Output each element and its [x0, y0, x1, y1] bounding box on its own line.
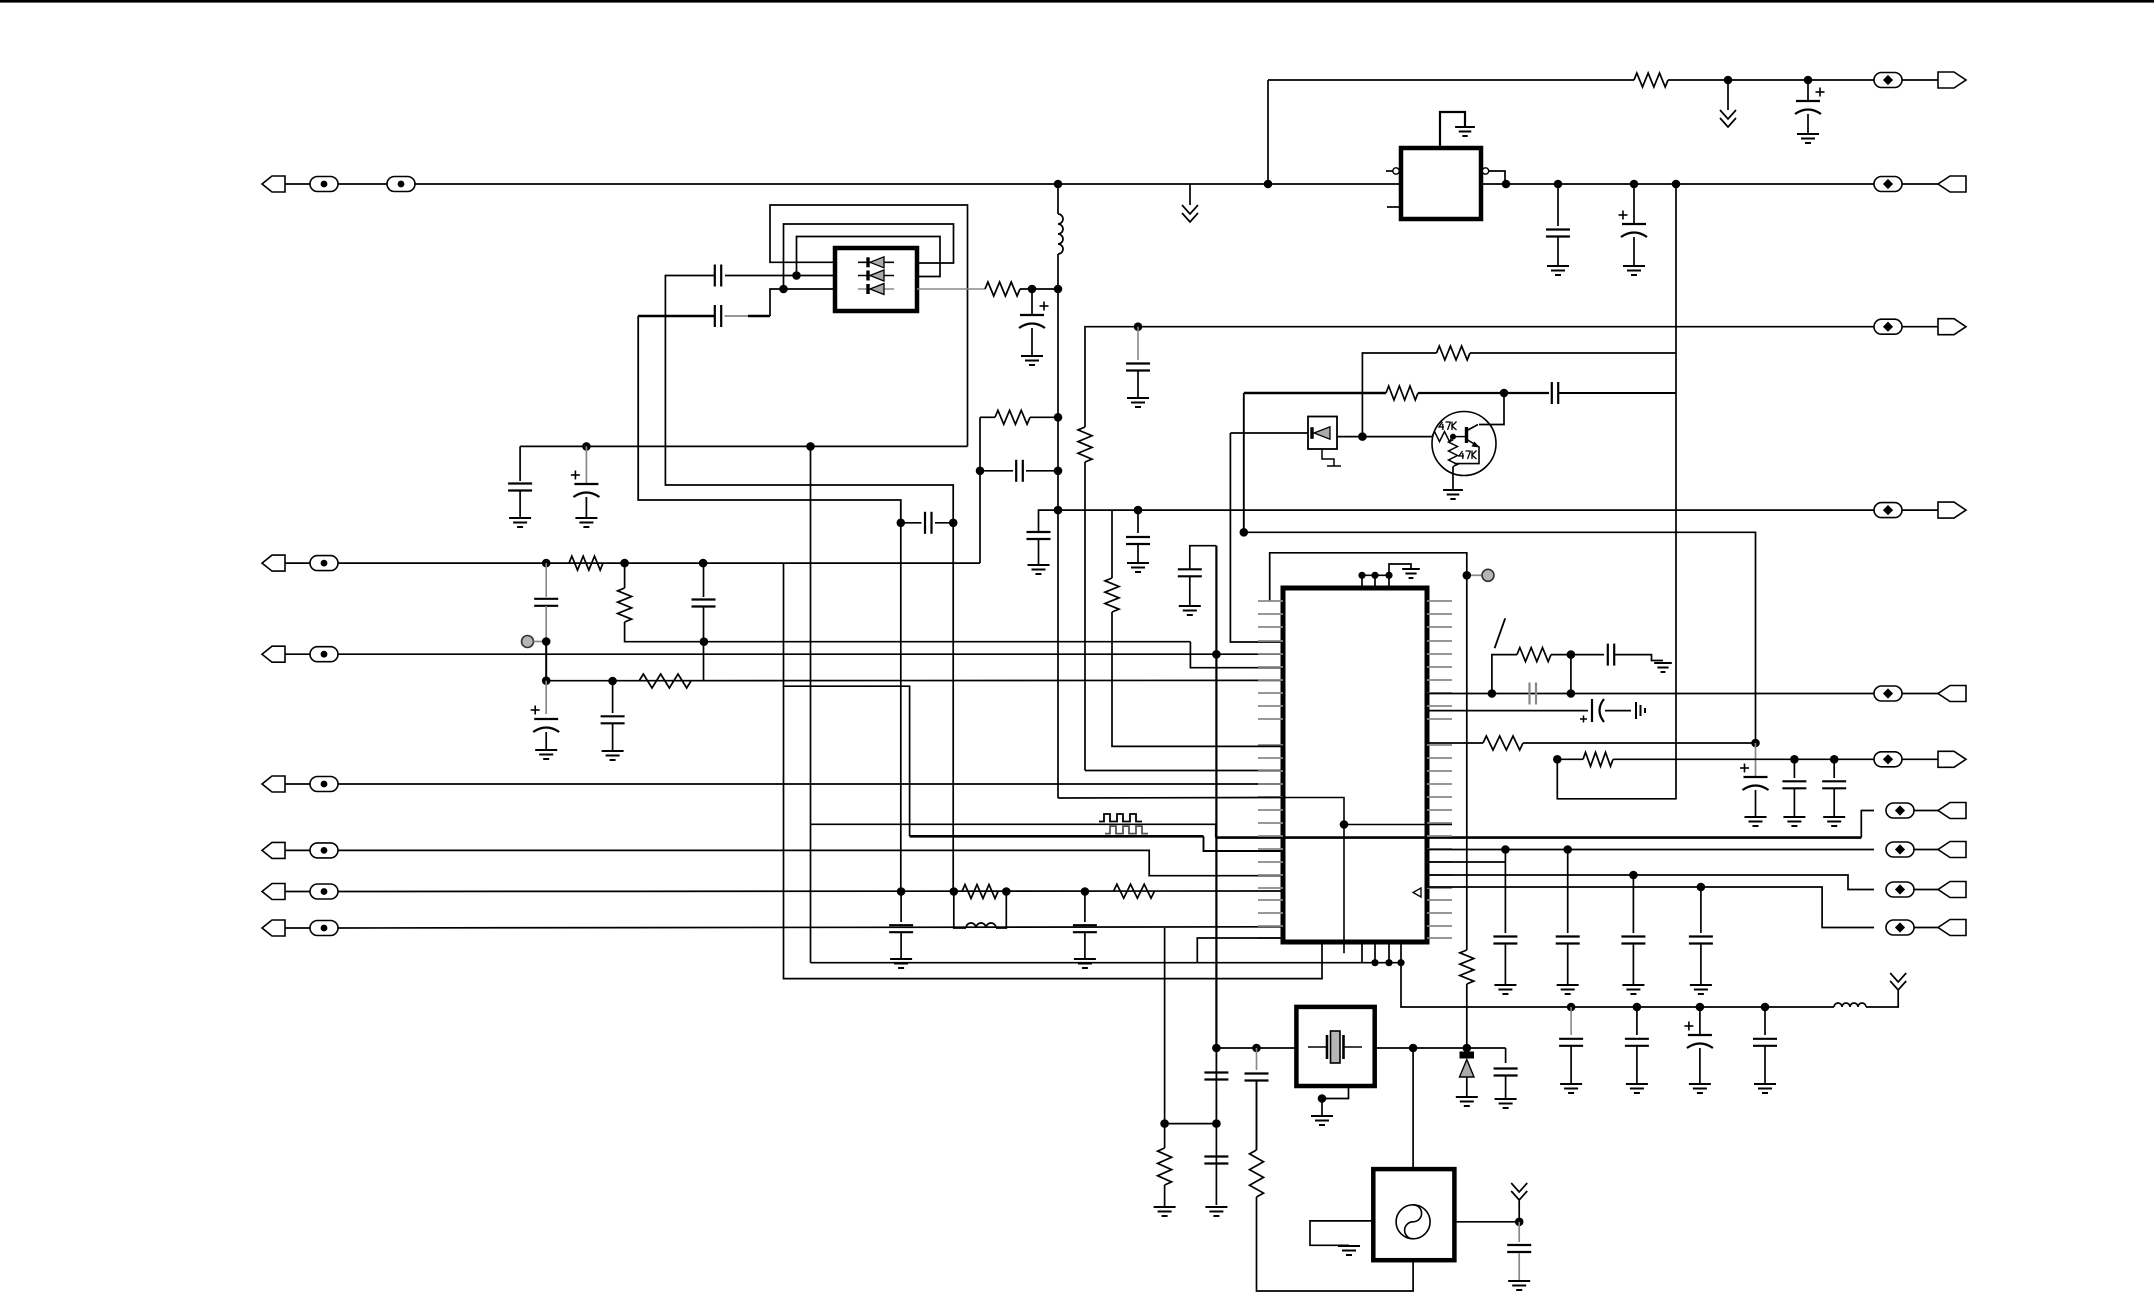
ground G37	[1754, 1084, 1776, 1093]
oscillator symbol wave	[1405, 1205, 1422, 1239]
wire C34 lead	[1518, 1222, 1520, 1242]
capacitor C20	[1608, 644, 1614, 666]
wire C25 lead	[1833, 759, 1835, 778]
resistor R8 47K vert	[1449, 440, 1458, 467]
wire row532	[1244, 532, 1756, 743]
capacitor C33	[1245, 1074, 1269, 1081]
resistor R18 vert	[1158, 1148, 1172, 1185]
wire C16 gnd	[612, 724, 614, 751]
wire TP6 port	[1902, 326, 1938, 328]
wire interior 797	[1284, 798, 1344, 954]
wire pad stub	[1471, 574, 1482, 576]
node N15 junction	[1054, 413, 1063, 422]
ground G32	[1338, 1246, 1360, 1255]
node N7 junction	[1630, 180, 1639, 189]
wire Q1 collector	[1467, 425, 1478, 431]
node N29 junction	[1371, 572, 1378, 579]
node N13 junction	[582, 442, 591, 451]
node N28 junction	[1358, 572, 1365, 579]
ground G2	[1455, 127, 1475, 136]
wire row798 left	[1058, 797, 1284, 800]
wire VCC row y80	[1268, 79, 1634, 81]
wire C23 lead	[1755, 743, 1757, 777]
pin circle U2 right	[1482, 168, 1488, 174]
capacitor C12	[1126, 364, 1150, 371]
capacitor C8 polarized	[571, 471, 600, 498]
wire N7 down	[1633, 184, 1635, 224]
wire TP16 port	[1902, 758, 1938, 760]
node N18 junction	[1054, 506, 1063, 515]
ground G5	[1021, 356, 1043, 365]
wire row417 left lead	[980, 416, 995, 418]
wire thick bus across IC	[1284, 836, 1426, 839]
wire C26 gnd	[1504, 944, 1506, 985]
wire V1216 low2	[1215, 1124, 1217, 1205]
ground G4	[1623, 266, 1645, 275]
test point TP16	[1874, 752, 1902, 767]
node N14 junction	[806, 442, 815, 451]
antenna ANT1	[1511, 1183, 1527, 1200]
wire TP20 port	[1914, 927, 1938, 929]
ground G19 rot	[1636, 702, 1645, 719]
emitter arrowhead	[1472, 442, 1480, 448]
diode D1	[868, 257, 884, 268]
wire row1048 right	[1375, 1047, 1506, 1049]
wire C38 lead	[1764, 1007, 1766, 1035]
ground G18	[1654, 663, 1672, 672]
node N22 junction	[1358, 432, 1367, 441]
wire TP17 port	[1914, 810, 1938, 812]
node N20 junction	[1134, 322, 1143, 331]
label 47K lower	[1459, 451, 1477, 460]
wire diode row3	[858, 288, 894, 290]
wire R8 down	[1452, 467, 1454, 491]
wire row849 right	[1427, 849, 1874, 851]
wire row891	[338, 890, 1284, 893]
wire base net	[1337, 436, 1432, 438]
port P7 in	[262, 646, 285, 662]
wire V1633	[1632, 875, 1634, 933]
wire N34 down	[545, 642, 547, 681]
wire outer loop left	[770, 205, 968, 446]
wire R16 right	[1523, 742, 1756, 744]
resistor R2	[985, 282, 1020, 296]
node N2 junction	[1804, 76, 1813, 85]
resistor R17	[1583, 752, 1613, 766]
wire V3 x810	[810, 446, 812, 962]
wire V1701	[1700, 887, 1702, 933]
wire row563	[338, 562, 980, 564]
node N25 junction	[1751, 739, 1760, 748]
wire C12 gnd	[1137, 372, 1139, 399]
wire diode row1	[858, 261, 894, 263]
node N10 junction	[792, 271, 801, 280]
wire thick busB	[1216, 836, 1861, 839]
wire N6 down	[1557, 184, 1559, 226]
wire D5 gnd	[1466, 1077, 1468, 1097]
port P1 out	[1938, 72, 1966, 88]
node N39 junction	[950, 887, 959, 896]
node N65 junction	[1633, 1003, 1642, 1012]
port P2 in	[262, 176, 285, 192]
wire R4 down	[1084, 462, 1086, 771]
resistor R6	[1386, 386, 1418, 400]
port P6 in	[262, 555, 285, 571]
wire N3 down	[1057, 184, 1059, 214]
wire U2 top pin	[1440, 112, 1465, 148]
wire C32 corner	[1505, 1048, 1507, 1063]
wire Q1 emitter	[1454, 440, 1479, 464]
wire C17 gnd	[545, 732, 547, 750]
wire diode row2	[858, 275, 894, 277]
inductor L2	[966, 923, 996, 928]
wire C11 lead	[1137, 510, 1139, 533]
label 47K upper	[1439, 422, 1457, 431]
port P4 out	[1938, 502, 1966, 518]
wire row1048 left	[1216, 1047, 1296, 1049]
diode D5 zener	[1460, 1055, 1475, 1077]
node N30 junction	[1385, 572, 1392, 579]
node N41 junction	[1081, 887, 1090, 896]
wire C35 lead	[1570, 1007, 1572, 1035]
capacitor C2	[1546, 230, 1570, 237]
node N21 junction	[1500, 389, 1509, 398]
wire stub down y184	[1189, 184, 1191, 205]
wire row446	[520, 445, 967, 447]
capacitor C6 polarized	[1019, 302, 1049, 329]
wire row875 right	[1427, 875, 1874, 890]
capacitor C18	[889, 925, 913, 932]
capacitor C37 polarized	[1684, 1022, 1713, 1049]
wire L3 right	[1866, 990, 1898, 1007]
test point TP14	[310, 921, 338, 936]
wire cap net 545	[1190, 546, 1217, 569]
wire V1413	[1412, 1048, 1414, 1169]
wire N35 down ecap	[545, 681, 547, 714]
capacitor C16	[601, 716, 625, 723]
test point TP8	[310, 556, 338, 571]
resistor R14	[1114, 884, 1155, 898]
test point TP10	[310, 647, 338, 662]
node N32 junction	[620, 559, 629, 568]
node N62 junction	[1463, 1044, 1472, 1053]
ground G35	[1626, 1084, 1648, 1093]
wire cap row 523 right	[935, 522, 953, 524]
test point TP2	[310, 177, 338, 192]
wire P6 to TP8	[285, 562, 310, 564]
resistor R12 vert	[618, 588, 632, 622]
capacitor C40	[925, 512, 932, 534]
ground G8	[1028, 565, 1050, 574]
IC U1 diode array	[835, 248, 917, 311]
test point TP18	[1886, 842, 1914, 857]
wire R3 right	[1030, 416, 1058, 418]
diode D3	[868, 284, 884, 295]
capacitor C3 polarized	[1619, 211, 1648, 238]
wire C36 gnd	[1636, 1047, 1638, 1085]
wire U1 botright pin	[917, 288, 985, 290]
node N35 junction	[542, 676, 551, 685]
wire C25 gnd	[1833, 789, 1835, 817]
wire row681	[546, 679, 1284, 681]
node N8 junction	[1672, 180, 1681, 189]
node N66 junction	[1696, 1003, 1705, 1012]
node N36 junction	[608, 677, 617, 686]
node N55 junction	[1397, 959, 1404, 966]
wire V1165	[1164, 928, 1166, 1124]
wire R2 right	[1020, 288, 1058, 290]
wire row471 to row563	[979, 471, 981, 563]
wire D4 left	[1230, 432, 1308, 434]
ground G36	[1689, 1084, 1711, 1093]
test point TP13	[310, 884, 338, 899]
port P12 in	[1938, 686, 1966, 702]
node N59 junction	[1252, 1044, 1261, 1053]
off-page arrow down A1	[1720, 110, 1736, 127]
capacitor C5	[715, 305, 721, 327]
ground G1	[1797, 134, 1819, 143]
node N37 junction	[700, 637, 709, 646]
wire T up x704	[703, 642, 705, 681]
capacitor C23 polarized	[1740, 764, 1769, 791]
wire R18 leads	[1164, 1124, 1166, 1207]
pin circle U2 left	[1393, 168, 1399, 174]
wire cap row 523 left	[901, 522, 922, 524]
test point TP1	[1874, 73, 1902, 88]
resistor R4 vertical	[1078, 427, 1092, 462]
wire C6 gnd	[1031, 328, 1033, 356]
wire pad link	[534, 641, 543, 643]
ground G20	[1745, 817, 1767, 826]
wire R9 down	[1466, 984, 1468, 1048]
node N31 junction	[542, 559, 551, 568]
node N5 junction	[1502, 180, 1511, 189]
wire U5 loop top	[1270, 553, 1467, 602]
wire C2 gnd	[1557, 237, 1559, 266]
wire C16 lead	[612, 681, 614, 713]
wire row417 corner	[979, 417, 981, 471]
node N38 junction	[897, 887, 906, 896]
ground G16	[890, 959, 912, 968]
wire R12 corner	[625, 563, 1191, 642]
wire C18 lead	[900, 892, 902, 923]
crystal Y1 lead left	[1308, 1046, 1327, 1048]
ground G29	[1311, 1116, 1333, 1125]
capacitor C7	[508, 484, 532, 491]
node N69 junction	[949, 519, 958, 528]
node N61 junction	[1409, 1044, 1418, 1053]
capacitor C32	[1494, 1069, 1518, 1076]
test point TP5	[1874, 503, 1902, 518]
wire row962	[811, 962, 1402, 964]
wire C13 right	[1559, 392, 1677, 394]
ground G10	[1127, 398, 1149, 407]
diode D2	[868, 270, 884, 281]
port P10 in	[262, 884, 285, 900]
wire TP19 port	[1914, 889, 1938, 891]
ground G15	[535, 750, 557, 759]
wire U1 botleft step	[748, 315, 770, 318]
capacitor C10	[1027, 532, 1051, 539]
test point TP12	[310, 843, 338, 858]
wire V703 upper	[703, 563, 705, 597]
wire TP15 port	[1902, 693, 1938, 695]
wire C15 lead	[545, 563, 547, 597]
wire C1 to ground	[1807, 114, 1809, 134]
wire C10 gnd	[1038, 540, 1040, 565]
wire V1216 low	[1215, 1048, 1217, 1124]
wire V1568	[1567, 850, 1569, 934]
port P9 in	[262, 842, 285, 858]
node N11 junction	[1028, 285, 1037, 294]
port P8 in	[262, 776, 285, 792]
wire branch 686	[784, 686, 910, 836]
capacitor C19	[1073, 925, 1097, 932]
wire row741	[1427, 742, 1483, 744]
ground G23	[1494, 985, 1516, 994]
wire C37 gnd	[1699, 1048, 1701, 1084]
node N48 junction	[1830, 755, 1839, 764]
port P3 in	[1938, 176, 1966, 192]
top border bar	[0, 0, 2154, 3]
test pad TP9	[522, 636, 534, 648]
pulse waveform glyph 2	[1105, 826, 1148, 834]
wire P11 TP14	[285, 927, 310, 929]
resistor R15	[1517, 648, 1551, 662]
crystal Y1 lead right	[1344, 1046, 1363, 1048]
wire C23 gnd	[1755, 790, 1757, 817]
node N19 junction	[1134, 506, 1143, 515]
node N58 junction	[1212, 1119, 1221, 1128]
capacitor C31	[1204, 1157, 1228, 1164]
switch SW1 lever	[1495, 618, 1506, 648]
node N57 junction	[1212, 1044, 1221, 1053]
oscillator symbol circle	[1396, 1205, 1430, 1239]
wire row510 left corner	[1039, 510, 1889, 531]
wire V703 mid	[703, 607, 705, 642]
capacitor C1 polarized	[1795, 88, 1825, 115]
wire C7 gnd	[519, 491, 521, 518]
capacitor C30	[1204, 1073, 1228, 1080]
wire row471 left	[980, 470, 1013, 472]
wire V1467 down	[1466, 575, 1468, 950]
capacitor C29	[1689, 937, 1713, 944]
ground G21	[1783, 817, 1805, 826]
inductor L1	[1058, 214, 1063, 254]
transistor Q1 circle	[1432, 412, 1496, 476]
node N33 junction	[699, 559, 708, 568]
wire C27 gnd	[1567, 944, 1569, 985]
capacitor C34	[1507, 1245, 1531, 1252]
wire U5 top pins	[1362, 575, 1389, 588]
capacitor C24	[1782, 781, 1806, 788]
wire C36 lead	[1636, 1007, 1638, 1035]
node N54 junction	[1385, 959, 1392, 966]
capacitor C14	[1178, 569, 1202, 576]
wire TP4 to port	[1902, 183, 1938, 185]
capacitor C36	[1625, 1039, 1649, 1046]
ground G24	[1557, 985, 1579, 994]
wire step 642-668	[1190, 642, 1284, 668]
ground G30	[1495, 1099, 1517, 1108]
wire link 1123	[1165, 1123, 1217, 1125]
wire C4 left	[665, 276, 953, 523]
pulse waveform glyph 1	[1099, 814, 1142, 822]
node N42 junction	[1340, 820, 1349, 829]
ground G7	[575, 518, 597, 527]
node N16 junction	[976, 467, 985, 476]
wire TP5 port	[1902, 509, 1938, 511]
test point TP3	[387, 177, 415, 192]
IC U4 oscillator	[1373, 1169, 1454, 1260]
node N23 junction	[1450, 434, 1456, 440]
node N1 junction	[1724, 76, 1733, 85]
node N9 junction	[779, 285, 788, 294]
ground G3	[1547, 266, 1569, 275]
node N60 junction	[1318, 1094, 1327, 1103]
wire P7 TP10	[285, 653, 310, 655]
node N40 junction	[1002, 887, 1011, 896]
wire C37 lead	[1699, 1007, 1701, 1035]
wire row80 to row184	[1267, 80, 1269, 184]
node N68 junction	[897, 519, 906, 528]
crystal Y1 plate right	[1342, 1035, 1345, 1059]
port P11 in	[262, 920, 285, 936]
wire C19 gnd	[1084, 933, 1086, 959]
wire C3 gnd	[1633, 237, 1635, 266]
capacitor C15	[534, 599, 558, 606]
wire N11 down	[1031, 289, 1033, 315]
port P13 out	[1938, 751, 1966, 767]
wire down x638	[638, 316, 901, 523]
wire D4 bottom stub	[1322, 449, 1334, 466]
wire V1505	[1504, 850, 1506, 934]
wire middle loop up	[784, 224, 954, 289]
ground G26	[1690, 985, 1712, 994]
wire R17 right	[1613, 758, 1874, 760]
node N51 junction	[1629, 871, 1638, 880]
wire R15 right	[1551, 654, 1604, 656]
wire C24 gnd	[1793, 789, 1795, 817]
wire C5 left	[638, 315, 715, 318]
wire main row y184	[415, 183, 1401, 185]
test point TP20	[1886, 920, 1914, 935]
IC U5 left pin stubs	[1258, 601, 1283, 938]
wire row887 right	[1427, 887, 1874, 928]
wire row770 to IC	[1085, 770, 1284, 772]
test point TP15	[1874, 686, 1902, 701]
wire row352 corner	[1362, 353, 1436, 437]
ground G34	[1560, 1084, 1582, 1093]
node N52 junction	[1697, 883, 1706, 892]
wire busA step	[1204, 836, 1285, 851]
node N24 junction	[1240, 528, 1249, 537]
wire C14 gnd	[1189, 577, 1191, 606]
wire row928	[338, 927, 1284, 928]
ground G22	[1823, 817, 1845, 826]
wire V1112	[1111, 510, 1113, 578]
wire C8 gnd	[585, 497, 587, 518]
wire V1216 thick	[1215, 546, 1217, 1048]
wire inner loop	[797, 237, 941, 277]
wire switch branch	[1492, 655, 1517, 694]
wire V1112 low	[1112, 612, 1284, 746]
wire row710 cap net	[1427, 710, 1588, 712]
wire D4 bottom tick	[1327, 465, 1341, 467]
node N63 junction	[1515, 1218, 1524, 1227]
capacitor C38	[1753, 1039, 1777, 1046]
ground G17	[1074, 959, 1096, 968]
